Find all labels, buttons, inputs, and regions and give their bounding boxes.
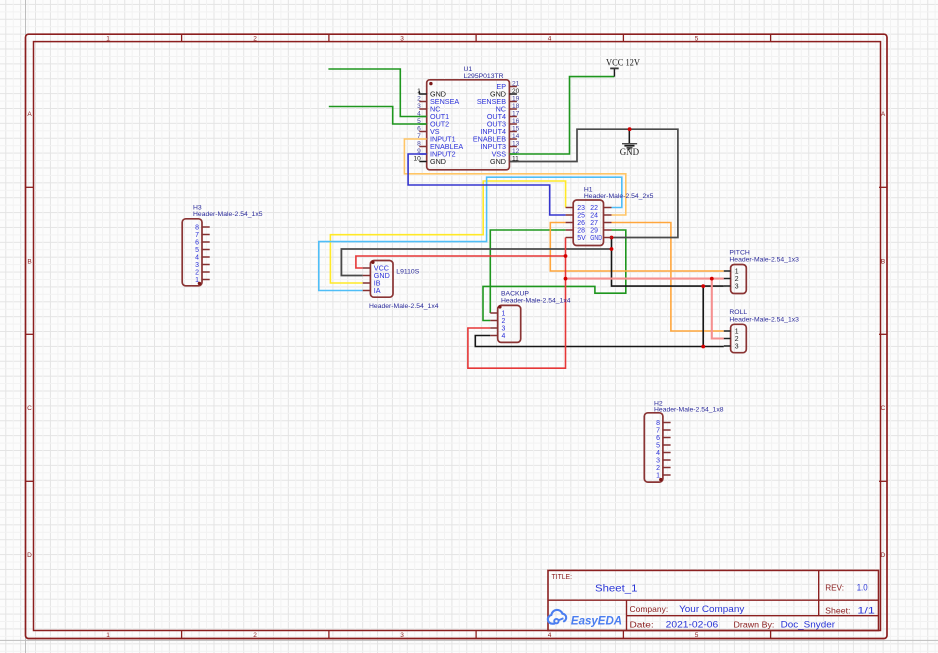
wire black BACKUP pin4 to ROLL pin3 <box>475 336 724 347</box>
wire green U1 VSS to VCC 12V <box>509 77 614 154</box>
svg-text:Sheet:: Sheet: <box>825 606 850 616</box>
wire blue U1 INPUT2 to H1 pin25 <box>408 154 565 215</box>
connector ROLL Header-Male-2.54_1x3 <box>724 309 799 353</box>
svg-text:21: 21 <box>512 81 520 88</box>
svg-text:D: D <box>27 552 32 559</box>
svg-text:13: 13 <box>512 141 520 148</box>
svg-text:26: 26 <box>577 220 585 227</box>
svg-text:2: 2 <box>253 632 257 639</box>
svg-text:Header-Male-2.54_1x8: Header-Male-2.54_1x8 <box>654 407 724 414</box>
svg-text:25: 25 <box>577 213 585 220</box>
svg-text:2021-02-06: 2021-02-06 <box>666 620 719 630</box>
svg-text:3: 3 <box>502 326 506 333</box>
svg-text:B: B <box>27 258 31 265</box>
svg-text:5: 5 <box>656 443 660 450</box>
svg-text:1: 1 <box>735 269 739 276</box>
connector BACKUP Header-Male-2.54_1x4 <box>490 291 570 343</box>
wire green H1 pin29 to BACKUP pin2 <box>483 230 626 321</box>
svg-text:17: 17 <box>512 111 520 118</box>
wire green H1 pin28 to BACKUP pin1 <box>490 230 565 313</box>
svg-text:5: 5 <box>695 632 699 639</box>
svg-text:5: 5 <box>195 247 199 254</box>
svg-text:11: 11 <box>512 156 519 163</box>
svg-text:3: 3 <box>735 284 739 291</box>
svg-text:4: 4 <box>656 450 660 457</box>
svg-text:EasyEDA: EasyEDA <box>571 613 622 627</box>
wire salmon 5V to PITCH pin2 <box>566 278 724 280</box>
ground symbol GND <box>620 129 640 157</box>
svg-text:4: 4 <box>195 255 199 262</box>
svg-text:1: 1 <box>735 329 739 336</box>
svg-text:1: 1 <box>502 311 506 318</box>
svg-text:Sheet_1: Sheet_1 <box>595 583 638 595</box>
svg-text:24: 24 <box>590 213 598 220</box>
svg-text:15: 15 <box>512 126 520 133</box>
svg-text:16: 16 <box>512 118 520 125</box>
svg-text:8: 8 <box>656 420 660 427</box>
svg-text:9: 9 <box>417 148 421 155</box>
svg-text:2: 2 <box>502 318 506 325</box>
svg-text:10: 10 <box>413 156 421 163</box>
svg-text:29: 29 <box>590 228 598 235</box>
svg-text:Header-Male-2.54_1x3: Header-Male-2.54_1x3 <box>729 256 799 263</box>
svg-text:22: 22 <box>590 205 598 212</box>
wire cyan L9110S IA to H1 pin22 <box>319 177 622 290</box>
svg-text:3: 3 <box>735 344 739 351</box>
svg-text:8: 8 <box>417 141 421 148</box>
svg-text:1.0: 1.0 <box>857 583 868 593</box>
svg-text:19: 19 <box>512 96 520 103</box>
svg-text:2: 2 <box>253 35 257 42</box>
svg-text:A: A <box>881 111 886 118</box>
svg-text:Your Company: Your Company <box>679 604 745 614</box>
svg-text:28: 28 <box>577 228 585 235</box>
svg-text:B: B <box>881 258 885 265</box>
wire gray U1 GND pin11 to H1 GND <box>509 129 678 237</box>
svg-text:7: 7 <box>195 232 199 239</box>
svg-text:A: A <box>27 111 32 118</box>
svg-text:GND: GND <box>490 157 506 166</box>
svg-text:D: D <box>881 552 886 559</box>
connector PITCH Header-Male-2.54_1x3 <box>724 250 799 294</box>
wire yellow L9110S IB to H1 pin23 <box>330 181 565 283</box>
svg-text:Header-Male-2.54_1x5: Header-Male-2.54_1x5 <box>193 211 263 218</box>
svg-text:3: 3 <box>400 35 404 42</box>
EasyEDA logo <box>548 610 622 627</box>
svg-text:2: 2 <box>195 270 199 277</box>
svg-text:1: 1 <box>106 35 110 42</box>
svg-text:ROLL: ROLL <box>729 309 747 316</box>
svg-text:IA: IA <box>374 286 381 295</box>
svg-text:GND: GND <box>430 157 446 166</box>
svg-text:5V: 5V <box>577 235 586 242</box>
svg-text:Drawn By:: Drawn By: <box>734 620 775 630</box>
svg-text:3: 3 <box>195 262 199 269</box>
svg-text:7: 7 <box>656 428 660 435</box>
svg-text:4: 4 <box>502 333 506 340</box>
junction nodes <box>564 127 714 348</box>
svg-text:23: 23 <box>577 205 585 212</box>
svg-text:C: C <box>27 405 32 412</box>
wire gray L9110S GND to GND net <box>341 249 611 276</box>
svg-text:4: 4 <box>417 111 421 118</box>
power flag VCC 12V <box>606 57 640 76</box>
header H2 Header-Male-2.54_1x8 <box>644 400 723 482</box>
svg-text:Header-Male-2.54_1x3: Header-Male-2.54_1x3 <box>729 316 799 323</box>
svg-text:VCC 12V: VCC 12V <box>606 57 640 67</box>
svg-text:5: 5 <box>417 118 421 125</box>
header H1 Header-Male-2.54_2x5 <box>566 187 654 246</box>
svg-text:1: 1 <box>106 632 110 639</box>
wire green U1 OUT2 <box>329 107 427 125</box>
wire orange H1 pin26 to PITCH pin1 <box>550 223 724 272</box>
svg-text:6: 6 <box>656 435 660 442</box>
svg-text:2: 2 <box>656 465 660 472</box>
svg-text:14: 14 <box>512 133 520 140</box>
svg-text:3: 3 <box>400 632 404 639</box>
svg-text:27: 27 <box>590 220 598 227</box>
svg-text:TITLE:: TITLE: <box>552 574 573 581</box>
svg-text:8: 8 <box>195 225 199 232</box>
wire light-orange U1 INPUT1 to H1 pin24 <box>404 139 625 215</box>
header H3 Header-Male-2.54_1x5 <box>182 205 263 286</box>
svg-text:7: 7 <box>417 133 421 140</box>
svg-text:6: 6 <box>195 240 199 247</box>
wire black branch PITCH3 to bottom net <box>702 286 704 346</box>
svg-text:2: 2 <box>417 96 421 103</box>
svg-text:4: 4 <box>548 35 552 42</box>
svg-text:Doc_Snyder: Doc_Snyder <box>781 620 835 630</box>
svg-text:L9110S: L9110S <box>396 269 419 276</box>
title block <box>548 570 879 630</box>
connector L9110S Header-Male-2.54_1x4 <box>363 261 439 310</box>
svg-text:18: 18 <box>512 103 520 110</box>
wire black H1 GND down to PITCH pin3 <box>612 238 724 287</box>
svg-text:REV:: REV: <box>825 583 844 593</box>
IC U1 L295P013TR <box>413 66 519 170</box>
svg-text:2: 2 <box>735 336 739 343</box>
svg-text:3: 3 <box>656 458 660 465</box>
wire red L9110S VCC to 5V net <box>356 256 566 268</box>
wire red H1 5V down to BACKUP pin3 <box>468 238 566 369</box>
svg-text:L295P013TR: L295P013TR <box>464 73 504 80</box>
svg-text:2: 2 <box>735 276 739 283</box>
wire green U1 OUT1 <box>328 69 426 117</box>
svg-text:GND: GND <box>620 147 640 157</box>
svg-text:Company:: Company: <box>630 604 669 614</box>
svg-text:1/1: 1/1 <box>857 606 875 616</box>
svg-text:12: 12 <box>512 148 520 155</box>
svg-text:U1: U1 <box>464 66 473 73</box>
svg-text:4: 4 <box>548 632 552 639</box>
svg-text:Header-Male-2.54_1x4: Header-Male-2.54_1x4 <box>369 303 439 310</box>
svg-text:C: C <box>881 405 886 412</box>
svg-text:Header-Male-2.54_1x4: Header-Male-2.54_1x4 <box>501 297 571 304</box>
svg-text:20: 20 <box>512 88 520 95</box>
svg-text:Header-Male-2.54_2x5: Header-Male-2.54_2x5 <box>584 193 654 200</box>
wire orange H1 pin27 to ROLL pin1 <box>612 223 724 332</box>
svg-text:GND: GND <box>590 235 602 242</box>
svg-text:6: 6 <box>417 126 421 133</box>
svg-text:Date:: Date: <box>630 620 654 630</box>
svg-text:5: 5 <box>695 35 699 42</box>
svg-text:3: 3 <box>417 103 421 110</box>
wire salmon branch to ROLL pin2 <box>712 279 724 339</box>
